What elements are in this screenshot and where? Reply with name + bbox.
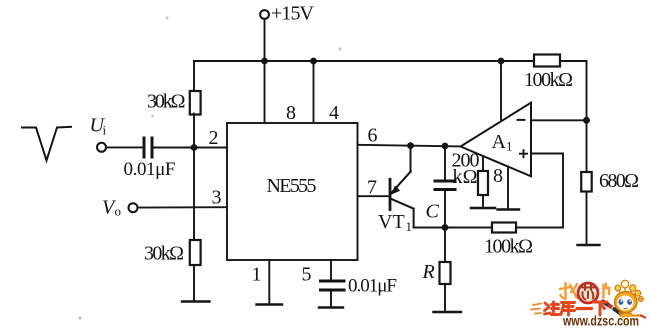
decorative speed strokes	[531, 304, 541, 314]
glyphs weikuyixia red	[545, 302, 608, 315]
resistor R timing	[444, 228, 446, 263]
svg-text:www.dzsc.com: www.dzsc.com	[562, 313, 639, 328]
resistor 200k	[482, 156, 484, 171]
node junction R C	[442, 224, 449, 231]
wire cap to ground	[330, 292, 332, 307]
wire pin5 lead	[330, 260, 332, 280]
svg-text:o: o	[115, 204, 122, 219]
op-amp A1	[461, 103, 532, 177]
svg-text:680Ω: 680Ω	[599, 170, 639, 192]
wire pin2 lead	[194, 147, 227, 149]
svg-text:R: R	[422, 261, 435, 283]
wire top bus +15V rail	[194, 60, 534, 62]
svg-text:A: A	[492, 131, 507, 153]
svg-text:4: 4	[329, 102, 339, 124]
noise speck	[151, 115, 154, 118]
node Ui terminal	[97, 143, 106, 152]
watermark logo group	[531, 280, 645, 328]
svg-text:8: 8	[493, 165, 503, 187]
wire 100k to plus input corner	[516, 227, 563, 229]
wire pin6 to comparator	[358, 145, 461, 147]
wire bus left corner down to R1	[193, 61, 195, 91]
ground below 680	[578, 244, 600, 246]
node junction cap C top	[442, 143, 449, 150]
yi	[577, 307, 592, 310]
wire minus input	[531, 119, 587, 121]
wire A1 pin8 to ground	[507, 167, 509, 209]
svg-text:5: 5	[302, 264, 312, 286]
wire feedback right corner down	[586, 61, 588, 172]
svg-text:NE555: NE555	[267, 175, 317, 197]
mascot	[615, 280, 645, 324]
xia	[594, 301, 608, 304]
wire pin3 lead	[138, 206, 228, 208]
magnifier handle pen	[603, 302, 609, 306]
transistor Q1 VT1	[390, 146, 414, 228]
resistor 680	[581, 172, 592, 192]
noise speck	[165, 16, 168, 19]
wire A1 supply from bus	[500, 61, 502, 121]
svg-text:30kΩ: 30kΩ	[144, 243, 184, 265]
resistor R1 30k upper	[190, 91, 201, 115]
svg-text:+15V: +15V	[271, 3, 315, 25]
node bus junction A1 supply	[498, 58, 505, 65]
svg-text:1: 1	[406, 219, 413, 234]
resistor R2 30k lower	[190, 240, 201, 265]
svg-text:30kΩ: 30kΩ	[147, 91, 186, 113]
node +15V terminal	[260, 10, 269, 19]
label plus input	[519, 153, 528, 155]
ku	[562, 301, 575, 304]
wire cap to pin2 node	[154, 147, 195, 149]
wire pin7 lead	[358, 195, 390, 197]
svg-text:i: i	[103, 123, 107, 138]
label minus input	[517, 119, 526, 121]
wire pin1 lead	[268, 260, 270, 304]
node junction VT1 collector	[407, 142, 414, 149]
ground below R	[434, 311, 462, 313]
wei	[545, 303, 549, 306]
glyph zhao (find) orange	[560, 283, 577, 299]
node junction minus feedback	[583, 117, 590, 124]
ground below 200k	[471, 207, 495, 209]
svg-text:0.01μF: 0.01μF	[348, 276, 397, 297]
input waveform symbol	[22, 127, 71, 161]
wire pin2 node down through pin3 line	[193, 148, 195, 241]
resistor 100k upper feedback	[534, 55, 560, 67]
svg-text:0.01μF: 0.01μF	[124, 159, 176, 180]
svg-text:VT: VT	[378, 211, 405, 233]
ground below A1 pin8	[498, 208, 520, 210]
svg-text:1: 1	[252, 264, 262, 286]
capacitor C timing	[444, 146, 446, 180]
wire Ui to coupling cap	[106, 146, 143, 148]
wire pin 4 lead	[313, 61, 315, 123]
svg-text:C: C	[426, 201, 440, 223]
resistor 100k lower	[492, 223, 516, 233]
wire R1 to pin2 node	[193, 114, 195, 148]
capacitor 0.01uF input coupling	[143, 138, 146, 157]
node pin2 junction	[191, 144, 198, 151]
node bus junction pin4	[310, 58, 317, 65]
svg-text:8: 8	[286, 102, 296, 124]
node bus junction pin8	[261, 58, 268, 65]
wire R2 to ground	[193, 265, 195, 301]
svg-text:7: 7	[367, 177, 377, 199]
glyph pian (chip) orange	[604, 284, 610, 298]
svg-text:6: 6	[368, 125, 378, 147]
ground below pin5 cap	[319, 306, 343, 308]
svg-text:3: 3	[212, 187, 222, 209]
node Vo terminal	[129, 203, 138, 212]
magnifier ring with xin glyph	[578, 283, 598, 303]
IC NE555 timer	[227, 123, 358, 260]
svg-text:kΩ: kΩ	[453, 166, 478, 188]
noise speck	[79, 317, 82, 320]
ground below pin1	[257, 303, 283, 305]
wire 680 to ground	[586, 192, 588, 245]
capacitor 0.01uF at pin5	[321, 280, 345, 283]
wire bus right segment to corner	[560, 60, 587, 62]
wire bottom node	[414, 227, 492, 229]
ground below R2	[182, 300, 210, 302]
svg-text:2: 2	[209, 127, 219, 149]
svg-text:100kΩ: 100kΩ	[524, 69, 573, 91]
wire +15V down to pin 8	[264, 19, 266, 123]
svg-text:1: 1	[506, 139, 513, 154]
svg-text:100kΩ: 100kΩ	[484, 236, 533, 258]
noise speck	[338, 47, 341, 50]
